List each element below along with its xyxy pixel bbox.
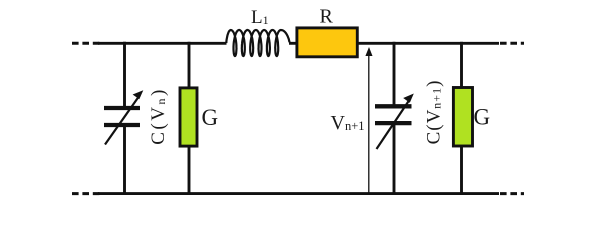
- wire left capacitor branch bottom: [123, 127, 126, 196]
- wire top rail left solid: [98, 42, 227, 45]
- wire right G branch bottom: [460, 146, 463, 195]
- capacitor C(Vn+1) plates: [375, 104, 412, 108]
- svg-text:L1: L1: [251, 7, 269, 28]
- bottom rail dashed right: [500, 192, 524, 195]
- resistor R: [297, 28, 357, 57]
- conductance G (left): [180, 88, 197, 146]
- svg-text:C(Vn): C(Vn): [148, 87, 169, 145]
- wire left capacitor branch top: [123, 42, 126, 107]
- conductance G (right): [453, 88, 472, 147]
- svg-text:G: G: [202, 105, 219, 130]
- capacitor C(Vn) plates: [104, 106, 140, 110]
- wire bottom rail solid: [98, 192, 499, 195]
- wire left G branch top: [188, 42, 191, 88]
- svg-text:R: R: [320, 6, 334, 28]
- top rail dashed left: [72, 42, 100, 45]
- wire right G branch top: [460, 42, 463, 88]
- svg-text:C(Vn+1): C(Vn+1): [424, 80, 445, 145]
- variable-capacitor arrow (left): [105, 96, 140, 145]
- inductor L1 coil: [226, 30, 289, 56]
- node arrow Vn+1: [368, 55, 370, 194]
- svg-text:G: G: [474, 105, 491, 130]
- svg-text:Vn+1: Vn+1: [331, 112, 365, 134]
- wire left G branch bottom: [188, 146, 191, 195]
- variable-capacitor arrow (right): [377, 99, 411, 149]
- wire right capacitor branch bottom: [393, 125, 396, 196]
- wire coil to R: [289, 42, 297, 45]
- wire right capacitor branch top: [393, 42, 396, 105]
- top rail dashed right: [500, 42, 524, 45]
- bottom rail dashed left: [72, 192, 100, 195]
- wire top rail right solid: [358, 42, 499, 45]
